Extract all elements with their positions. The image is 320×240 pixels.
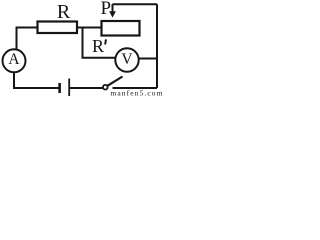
- svg-text:manfen5.com: manfen5.com: [110, 89, 163, 98]
- wire junction branch down to voltmeter V: [83, 28, 116, 58]
- switch pivot: [103, 85, 108, 90]
- resistor R1: [38, 22, 78, 34]
- svg-text:A: A: [8, 51, 20, 68]
- wire from resistor R to rheostat P: [77, 27, 101, 29]
- svg-text:R: R: [92, 36, 104, 56]
- rheostat R' body: [102, 21, 140, 36]
- wire from wiper up and right to right rail: [113, 3, 158, 5]
- switch lever: [107, 77, 122, 86]
- right rail wire down: [156, 4, 158, 88]
- wire from ammeter A down to bottom rail: [14, 72, 59, 88]
- wire from voltmeter V right to right rail: [139, 58, 157, 60]
- wire from ammeter A top up and right to resistor R: [17, 28, 38, 51]
- svg-text:P: P: [101, 0, 112, 19]
- svg-text:R: R: [57, 1, 71, 23]
- battery: short plate: [58, 83, 61, 93]
- wire from switch to right rail: [113, 87, 158, 89]
- battery: long plate: [68, 79, 70, 97]
- ammeter A: [3, 49, 26, 72]
- voltmeter V: [115, 48, 138, 71]
- wire from battery to switch: [70, 87, 103, 89]
- wiper arrow of rheostat: [112, 4, 114, 12]
- svg-text:V: V: [121, 51, 133, 68]
